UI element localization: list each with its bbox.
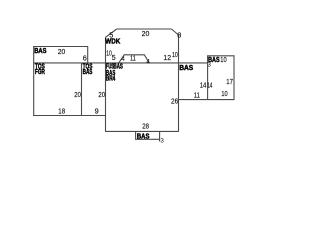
wire: bump left edge bbox=[135, 131, 137, 139]
svg-text:26: 26 bbox=[171, 97, 178, 106]
wire: WDK left clip slant bbox=[106, 29, 117, 37]
svg-text:20: 20 bbox=[142, 29, 150, 38]
svg-text:11: 11 bbox=[130, 54, 136, 63]
wire: WDK deck top edge bbox=[117, 28, 172, 30]
wire: bay window trapezoid bbox=[118, 55, 149, 64]
wire: WDK right clip slant bbox=[172, 29, 179, 35]
svg-text:18: 18 bbox=[58, 106, 65, 115]
svg-text:14: 14 bbox=[200, 81, 207, 90]
svg-text:5: 5 bbox=[112, 53, 116, 62]
svg-text:17: 17 bbox=[226, 77, 233, 86]
wire: WDK+main right edge vertical bbox=[178, 35, 180, 132]
wire: main building bottom edge bbox=[106, 130, 179, 132]
svg-text:6: 6 bbox=[83, 54, 87, 63]
svg-text:5: 5 bbox=[109, 31, 113, 40]
svg-text:20: 20 bbox=[98, 90, 105, 99]
svg-text:14: 14 bbox=[207, 81, 212, 90]
svg-text:11: 11 bbox=[194, 90, 200, 99]
wire: WDK+main left edge vertical bbox=[105, 37, 107, 132]
wire: top-right rect left edge / divider bbox=[207, 55, 209, 99]
svg-text:20: 20 bbox=[74, 90, 81, 99]
svg-text:BR4: BR4 bbox=[106, 76, 115, 83]
svg-text:10: 10 bbox=[220, 55, 226, 64]
wire: top BAS rect right edge bbox=[87, 46, 89, 63]
svg-text:4: 4 bbox=[121, 56, 125, 63]
wire: left edge vertical bbox=[33, 46, 35, 116]
wire: bump right edge bbox=[159, 131, 161, 141]
svg-text:FGR: FGR bbox=[35, 69, 45, 76]
svg-text:10: 10 bbox=[221, 89, 227, 98]
svg-text:BAS: BAS bbox=[137, 133, 150, 140]
wire: TQS divider vertical bbox=[81, 63, 83, 116]
svg-text:8: 8 bbox=[177, 30, 181, 39]
svg-text:4: 4 bbox=[146, 58, 150, 65]
wire: top BAS rect top edge bbox=[33, 46, 87, 48]
svg-text:9: 9 bbox=[95, 106, 99, 115]
svg-text:BAS: BAS bbox=[83, 69, 93, 76]
svg-text:20: 20 bbox=[58, 47, 66, 56]
wire: top-right rect top edge bbox=[208, 55, 234, 57]
wire: right section bottom edge bbox=[179, 99, 235, 101]
wire: main long horizontal line bbox=[33, 62, 207, 64]
svg-text:3: 3 bbox=[160, 137, 164, 144]
svg-text:BAS: BAS bbox=[34, 48, 47, 55]
wire: bottom bump bottom edge bbox=[136, 138, 160, 140]
svg-text:28: 28 bbox=[142, 121, 149, 130]
svg-text:BAS: BAS bbox=[179, 65, 193, 72]
svg-text:12: 12 bbox=[163, 53, 171, 62]
svg-text:10: 10 bbox=[172, 50, 178, 59]
wire: left structure bottom edge bbox=[33, 115, 105, 117]
wire: top-right rect right edge bbox=[233, 55, 235, 100]
svg-text:3: 3 bbox=[207, 61, 211, 68]
